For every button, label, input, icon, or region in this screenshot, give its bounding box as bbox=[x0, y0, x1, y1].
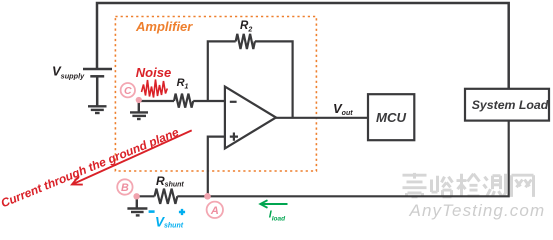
node A dot bbox=[204, 193, 211, 200]
wire R2 left vertical bbox=[208, 41, 236, 101]
svg-text:System Load: System Load bbox=[472, 98, 549, 112]
wire top rail bbox=[97, 3, 509, 89]
red ground-plane current arrow bbox=[72, 130, 192, 184]
ground (battery) bbox=[88, 106, 107, 113]
resistor R2 bbox=[236, 34, 255, 49]
resistor R1 bbox=[174, 94, 193, 108]
svg-text:B: B bbox=[121, 182, 129, 194]
noise squiggle bbox=[142, 80, 168, 98]
node C dot bbox=[136, 97, 142, 103]
node A circled letter bbox=[207, 202, 223, 218]
wire output to MCU bbox=[276, 117, 368, 119]
System Load box bbox=[465, 89, 549, 121]
op-amp minus sign bbox=[230, 101, 237, 103]
ground (node C) bbox=[130, 101, 148, 119]
label plus (cyan) bbox=[179, 209, 185, 215]
svg-text:Amplifier: Amplifier bbox=[135, 19, 193, 34]
battery V_supply bbox=[83, 69, 112, 106]
svg-text:MCU: MCU bbox=[376, 110, 407, 125]
node B dot bbox=[133, 193, 139, 199]
op-amp plus sign bbox=[230, 133, 238, 141]
svg-text:Noise: Noise bbox=[136, 65, 171, 80]
label minus (cyan) bbox=[149, 210, 155, 213]
svg-text:AnyTesting.com: AnyTesting.com bbox=[409, 201, 546, 220]
resistor Rshunt bbox=[155, 189, 178, 204]
wire R2 right vertical to output bbox=[255, 41, 293, 117]
wire R1 to op-amp bbox=[193, 100, 225, 102]
wire Rshunt to node B bbox=[137, 195, 155, 197]
watermark 嘉峪检测网 (drawn glyph approximations) bbox=[403, 173, 534, 197]
MCU box bbox=[368, 94, 414, 140]
svg-text:A: A bbox=[210, 205, 219, 217]
node B circled letter bbox=[117, 179, 132, 194]
wire noise node to op-amp minus input bbox=[139, 100, 174, 102]
wire plus input from node A bbox=[208, 137, 225, 197]
current arrow I_load (green) bbox=[260, 200, 287, 208]
node C circled letter bbox=[121, 83, 135, 97]
amplifier dashed box bbox=[115, 17, 316, 172]
ground (node B) bbox=[127, 196, 147, 215]
svg-text:C: C bbox=[124, 85, 132, 97]
op-amp U1 bbox=[225, 87, 276, 149]
wire bottom rail right bbox=[177, 121, 508, 197]
